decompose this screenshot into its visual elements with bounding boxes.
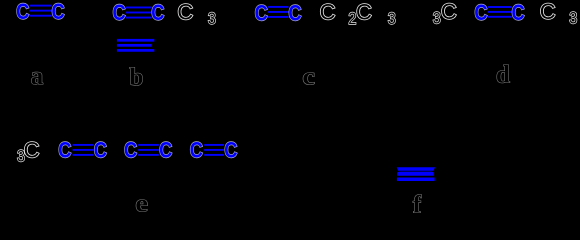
svg-text:3: 3 (208, 10, 216, 28)
triple bond b line 3 (126, 17, 151, 19)
skeletal triple bond f, line 3 (397, 178, 435, 182)
svg-text:C: C (58, 138, 71, 163)
svg-text:C: C (190, 138, 203, 163)
triple bond e2 line 2 (138, 149, 159, 151)
svg-text:b: b (130, 64, 144, 91)
svg-text:H: H (192, 1, 208, 26)
svg-text:C: C (224, 138, 237, 163)
svg-text:3: 3 (433, 9, 441, 27)
triple bond e3 line 3 (204, 154, 224, 156)
triple bond a line 1 (30, 5, 52, 7)
svg-text:C: C (474, 0, 487, 25)
single bond C4-C5 (invisible) (173, 150, 189, 152)
triple bond e1 line 2 (73, 149, 94, 151)
triple bond e1 line 1 (73, 144, 94, 146)
skeletal triple bond f, line 2 (397, 172, 434, 176)
single bond C2-CH3 (invisible) (165, 12, 177, 14)
svg-text:C: C (16, 0, 29, 24)
svg-text:C: C (112, 0, 125, 25)
triple bond c line 2 (268, 11, 288, 13)
svg-text:C: C (94, 138, 107, 163)
triple bond d line 2 (488, 11, 512, 13)
svg-text:e: e (135, 190, 148, 217)
svg-text:C: C (177, 0, 193, 24)
triple bond c line 1 (268, 6, 288, 8)
svg-text:C: C (512, 0, 525, 25)
svg-text:C: C (124, 138, 137, 163)
svg-text:H: H (416, 0, 432, 25)
single bond C2-CH2 (invisible) (302, 12, 314, 14)
skeletal triple bond under b, line 3 (117, 49, 154, 52)
svg-text:C: C (151, 0, 164, 25)
svg-text:a: a (31, 63, 44, 90)
triple bond e2 line 1 (138, 144, 159, 146)
skeletal triple bond under b, line 2 (117, 44, 152, 47)
single bond C2-CH3 (invisible) (526, 11, 539, 13)
triple bond b line 1 (126, 7, 151, 9)
svg-text:H: H (1, 0, 17, 24)
triple bond d line 3 (488, 16, 512, 18)
triple bond a line 2 (30, 10, 52, 12)
triple bond b line 2 (126, 12, 151, 14)
single bond H3C-C (invisible) (458, 11, 472, 13)
svg-text:C: C (441, 0, 457, 24)
triple bond e1 line 3 (73, 154, 94, 156)
triple bond e3 line 2 (204, 149, 224, 151)
svg-text:H: H (97, 1, 113, 26)
svg-text:H: H (64, 0, 80, 24)
triple bond a line 3 (30, 15, 52, 17)
svg-text:3: 3 (569, 9, 577, 27)
svg-text:C: C (159, 138, 172, 163)
skeletal triple bond under b, line 1 (117, 39, 154, 42)
svg-text:C: C (52, 0, 65, 24)
svg-text:c: c (302, 63, 315, 90)
svg-text:H: H (371, 1, 387, 26)
triple bond e2 line 3 (138, 154, 159, 156)
svg-text:C: C (288, 0, 301, 25)
svg-text:C: C (24, 137, 40, 162)
single bond C2-C3 (invisible) (108, 150, 123, 152)
svg-text:H: H (237, 138, 253, 163)
triple bond c line 3 (268, 16, 288, 18)
svg-text:C: C (255, 0, 268, 25)
single bond H3C-C (invisible) (41, 150, 56, 152)
svg-text:3: 3 (388, 10, 396, 28)
svg-text:f: f (413, 191, 422, 217)
svg-text:H: H (554, 0, 570, 25)
skeletal triple bond f, line 1 (397, 167, 435, 171)
triple bond e3 line 1 (204, 144, 224, 146)
svg-text:H: H (239, 1, 255, 26)
svg-text:d: d (496, 61, 510, 88)
triple bond d line 1 (488, 6, 512, 8)
